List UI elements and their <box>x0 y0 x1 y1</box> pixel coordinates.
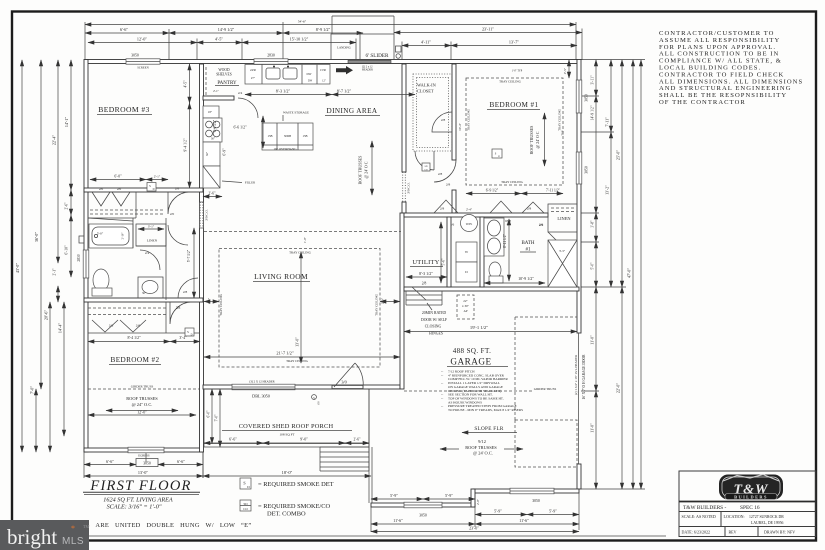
svg-text:1'-0" TYP: 1'-0" TYP <box>512 70 523 73</box>
svg-text:6'-6": 6'-6" <box>106 459 114 464</box>
bed1 bottom interior dims <box>466 193 521 195</box>
svg-text:LIVING ROOM: LIVING ROOM <box>254 272 308 281</box>
svg-text:= REQUIRED SMOKE/CO: = REQUIRED SMOKE/CO <box>258 503 331 510</box>
svg-text:ROOF TRUSSES: ROOF TRUSSES <box>126 396 158 401</box>
svg-text:DATE: 6/23/2022: DATE: 6/23/2022 <box>682 530 711 535</box>
living tray outer dash <box>204 231 401 233</box>
bedroom3 bottom wall <box>84 188 203 192</box>
svg-text:HEADER: HEADER <box>362 69 373 72</box>
svg-text:DRAWN BY: NFV: DRAWN BY: NFV <box>764 530 795 535</box>
cased opening 3/0 C.O. in spine <box>200 202 204 228</box>
svg-text:TRAY CEILING: TRAY CEILING <box>219 293 223 316</box>
svg-text:13'-7": 13'-7" <box>509 40 519 45</box>
svg-text:12727 SUNROCK DR: 12727 SUNROCK DR <box>749 515 784 519</box>
svg-text:TRAY CEILING: TRAY CEILING <box>467 108 471 131</box>
left dim col 22'-4" 2'-6" 2'-1" 20'-6" <box>57 60 59 263</box>
svg-text:5'-7 1/2": 5'-7 1/2" <box>187 249 191 262</box>
svg-text:MLS: MLS <box>62 536 84 547</box>
svg-text:6'-0": 6'-0" <box>114 175 122 179</box>
svg-text:5'-9": 5'-9" <box>549 509 557 514</box>
svg-text:2'-0": 2'-0" <box>381 297 385 304</box>
svg-text:13'-0": 13'-0" <box>138 470 148 475</box>
svg-text:9'-4 1/2": 9'-4 1/2" <box>184 138 188 152</box>
svg-text:3/0 C.O.: 3/0 C.O. <box>407 182 411 194</box>
bifold doors 2/0 2/0 <box>92 192 130 206</box>
svg-text:2/6: 2/6 <box>109 324 114 328</box>
svg-text:D: D <box>153 188 155 191</box>
hall door arc <box>434 160 456 182</box>
left dim 36'-0" / 7'-0" <box>40 60 42 389</box>
garage bottom dims <box>371 498 423 500</box>
landing <box>331 34 394 60</box>
svg-text:CLOSET: CLOSET <box>417 89 434 94</box>
svg-text:@ 24" O.C.: @ 24" O.C. <box>132 402 153 407</box>
closet wall below bifolds <box>88 217 136 219</box>
pedestal sink <box>138 277 163 298</box>
svg-text:13'-0": 13'-0" <box>295 337 300 347</box>
svg-text:FIRST FLOOR: FIRST FLOOR <box>89 478 191 494</box>
bath interior walls <box>132 218 134 248</box>
svg-text:4'-5": 4'-5" <box>215 37 223 42</box>
svg-text:TM: TM <box>83 524 89 529</box>
svg-text:CO: CO <box>424 169 428 172</box>
svg-text:2'-5": 2'-5" <box>563 67 567 74</box>
svg-text:8'-9 1/2": 8'-9 1/2" <box>316 27 331 32</box>
svg-text:DW: DW <box>307 72 312 76</box>
svg-text:CO: CO <box>243 507 248 511</box>
dimension tier top row left <box>85 32 169 34</box>
svg-text:DET. COMBO: DET. COMBO <box>267 511 306 518</box>
dimension tier second row left <box>88 42 197 44</box>
svg-text:2/0: 2/0 <box>170 212 175 216</box>
garage dashed layout lines <box>514 317 516 420</box>
svg-text:14'-9 1/2": 14'-9 1/2" <box>218 27 235 32</box>
svg-text:AP: AP <box>463 309 467 313</box>
porch steps <box>320 446 369 448</box>
pantry door 2/4 <box>238 98 258 118</box>
svg-text:CLOSING: CLOSING <box>425 325 442 329</box>
svg-text:2/8: 2/8 <box>176 306 181 310</box>
svg-text:DOOR W/ SELF: DOOR W/ SELF <box>421 318 447 322</box>
svg-text:6'-9 1/2": 6'-9 1/2" <box>486 189 499 193</box>
svg-text:2'-6": 2'-6" <box>65 202 69 209</box>
garage bottom wall right part <box>473 489 579 493</box>
attic access <box>457 295 474 319</box>
svg-text:8'-3 1/2": 8'-3 1/2" <box>419 271 433 276</box>
svg-text:TRAY CEILING: TRAY CEILING <box>501 180 524 184</box>
left dim col 14'-1" 6'-10" 14'-4" <box>70 60 72 190</box>
svg-text:23'-0": 23'-0" <box>469 526 479 531</box>
island <box>262 123 313 150</box>
window 3050 bedroom3 <box>126 59 160 64</box>
walk-in closet <box>413 74 452 151</box>
exterior top wall <box>85 60 577 64</box>
svg-text:GARAGE: GARAGE <box>450 357 491 367</box>
svg-text:2830: 2830 <box>77 254 81 261</box>
linen closet <box>548 204 577 232</box>
svg-text:W.H.: W.H. <box>466 222 473 226</box>
svg-text:3'-1": 3'-1" <box>148 225 155 229</box>
living bottom dim 21'-7 1/2" <box>204 356 400 358</box>
svg-text:8'-7 1/2": 8'-7 1/2" <box>337 89 352 94</box>
svg-text:DINING AREA: DINING AREA <box>327 107 378 115</box>
svg-text:SD: SD <box>243 502 248 506</box>
window 3050 bedroom2 <box>128 447 164 453</box>
shower <box>548 240 577 287</box>
front door 3/0 with arc <box>332 386 363 389</box>
svg-text:20MIN RATED: 20MIN RATED <box>422 311 447 315</box>
svg-text:BEDROOM #2: BEDROOM #2 <box>111 356 160 364</box>
svg-text:2'-4": 2'-4" <box>466 208 473 212</box>
svg-text:2'-6": 2'-6" <box>209 192 216 196</box>
svg-text:25'-0": 25'-0" <box>616 150 621 160</box>
bedroom1 tray ceiling dashed <box>466 78 563 185</box>
svg-text:2'-0": 2'-0" <box>207 297 211 304</box>
svg-text:6'-0": 6'-0" <box>207 410 211 417</box>
right extension lines <box>581 60 645 490</box>
svg-text:3050: 3050 <box>143 462 151 466</box>
windows 3050 bedroom1 right wall <box>576 80 582 113</box>
hall door 2/0 <box>168 225 188 245</box>
svg-text:12'-0": 12'-0" <box>137 410 147 415</box>
svg-text:OF THE CONTRACTOR: OF THE CONTRACTOR <box>659 99 746 106</box>
right dims upper <box>595 60 597 96</box>
svg-text:1624 SQ FT. LIVING AREA: 1624 SQ FT. LIVING AREA <box>103 497 173 504</box>
svg-text:LANDING: LANDING <box>337 46 351 50</box>
svg-text:36": 36" <box>142 292 146 295</box>
svg-text:19'-1 1/2": 19'-1 1/2" <box>470 325 488 330</box>
svg-text:2/0: 2/0 <box>117 187 122 191</box>
svg-text:5'-0": 5'-0" <box>591 262 595 269</box>
bedroom3 door 2/8 <box>168 192 190 214</box>
bed2 bottom exterior dims <box>84 464 136 466</box>
svg-text:11'-0": 11'-0" <box>590 423 595 433</box>
svg-text:SCALE: AS NOTED: SCALE: AS NOTED <box>682 514 716 519</box>
svg-text:LINEN: LINEN <box>557 216 571 221</box>
svg-text:SLOPE FLR: SLOPE FLR <box>474 426 504 432</box>
svg-text:2'-1": 2'-1" <box>154 175 161 179</box>
window 2830 kitchen <box>254 59 288 64</box>
svg-text:SCALE: 3/16" = 1'-0": SCALE: 3/16" = 1'-0" <box>107 504 162 511</box>
svg-text:21'-7 1/2": 21'-7 1/2" <box>276 351 294 356</box>
svg-text:11'-0": 11'-0" <box>590 335 595 345</box>
svg-text:BEDROOM #3: BEDROOM #3 <box>98 105 149 114</box>
svg-text:7'-0": 7'-0" <box>215 414 219 421</box>
dimension tier 54'-6" overall top <box>85 24 576 26</box>
svg-text:LOCATION:: LOCATION: <box>724 514 745 519</box>
svg-text:2'-10": 2'-10" <box>122 233 125 240</box>
bath/bed2 divider wall <box>84 298 203 302</box>
svg-text:@ 24' O C: @ 24' O C <box>364 161 369 178</box>
svg-text:S: S <box>243 481 245 486</box>
svg-text:TRAY CEILING: TRAY CEILING <box>289 251 312 255</box>
svg-text:BEDROOM #1: BEDROOM #1 <box>490 101 539 109</box>
svg-text:2'-1": 2'-1" <box>53 268 57 275</box>
svg-text:15'-10 1/2": 15'-10 1/2" <box>290 37 309 42</box>
toilet bath1 <box>489 262 501 278</box>
svg-text:3050: 3050 <box>532 499 540 503</box>
tub <box>89 224 133 248</box>
svg-text:1'-0": 1'-0" <box>303 236 307 243</box>
T&W logo <box>719 475 783 500</box>
slider door <box>348 60 391 63</box>
svg-text:9'-0": 9'-0" <box>300 437 308 442</box>
bed2 girder truss <box>88 388 199 390</box>
svg-text:7'-11": 7'-11" <box>605 117 610 127</box>
svg-text:8'-4 1/2": 8'-4 1/2" <box>127 336 141 340</box>
svg-text:2'-1": 2'-1" <box>213 89 220 93</box>
bath left wall <box>480 217 484 287</box>
svg-text:6'-6": 6'-6" <box>120 27 128 32</box>
svg-text:2430: 2430 <box>250 68 257 72</box>
svg-text:5'-9": 5'-9" <box>445 493 453 498</box>
toilet <box>93 269 109 291</box>
legend smoke/co <box>240 500 251 511</box>
svg-text:2/8: 2/8 <box>446 183 451 187</box>
svg-text:REV: REV <box>729 530 737 535</box>
exterior left wall <box>84 60 88 453</box>
svg-text:2/8: 2/8 <box>422 282 427 286</box>
svg-text:GIRDER TRUSS: GIRDER TRUSS <box>534 387 557 391</box>
svg-text:108 SQ FT: 108 SQ FT <box>279 433 295 437</box>
svg-text:43'-0": 43'-0" <box>15 263 20 273</box>
header arrow <box>336 66 353 74</box>
garage door opening <box>578 333 580 464</box>
kitchen upper counter row <box>245 65 330 85</box>
svg-text:12": 12" <box>322 80 326 83</box>
svg-text:D: D <box>191 334 193 337</box>
svg-text:14'-4": 14'-4" <box>58 323 63 333</box>
svg-text:D: D <box>498 155 500 158</box>
svg-text:2830: 2830 <box>267 54 275 58</box>
svg-text:--: -- <box>441 404 443 408</box>
porch right edge down to south wall <box>368 389 370 503</box>
closet door 2/8 <box>432 112 452 132</box>
svg-text:5'-9": 5'-9" <box>494 509 502 514</box>
svg-text:6'-6": 6'-6" <box>177 459 185 464</box>
utility / living right wall <box>400 213 404 389</box>
svg-text:30DB: 30DB <box>284 134 291 138</box>
linen door 2/6 chevron <box>548 232 559 254</box>
door 2/4 bath <box>140 250 160 270</box>
svg-text:54'-6": 54'-6" <box>298 20 307 24</box>
svg-text:16" OVERHANG: 16" OVERHANG <box>273 147 297 151</box>
svg-text:6'-9": 6'-9" <box>223 148 227 156</box>
svg-text:3'-11": 3'-11" <box>591 75 595 85</box>
svg-text:FILLER: FILLER <box>245 181 255 185</box>
svg-text:14'-1": 14'-1" <box>64 117 69 127</box>
bedroom1 bottom wall <box>404 213 548 217</box>
svg-text:TYP: TYP <box>562 130 565 135</box>
svg-text:4'-11": 4'-11" <box>421 40 431 45</box>
svg-text:DW: DW <box>308 80 313 83</box>
linen hall <box>136 224 166 246</box>
svg-text:(3) 2 X 12 HEADER: (3) 2 X 12 HEADER <box>249 380 274 384</box>
svg-text:SHELVES: SHELVES <box>216 73 231 77</box>
filler note <box>222 181 242 183</box>
svg-text:2/8: 2/8 <box>438 172 443 176</box>
svg-text:2/0: 2/0 <box>99 187 104 191</box>
svg-text:10'-4": 10'-4" <box>458 122 462 130</box>
svg-text:4'-5": 4'-5" <box>184 80 188 88</box>
window 2830 left wall <box>83 250 89 278</box>
bed3 dims above closet <box>90 179 146 181</box>
garage bottom wall left part <box>371 503 475 507</box>
svg-text:BUILDERS: BUILDERS <box>734 494 768 499</box>
svg-text:TRAY CEILING: TRAY CEILING <box>375 293 379 316</box>
svg-text:23'-11": 23'-11" <box>482 27 494 32</box>
svg-text:TRAY CEILING: TRAY CEILING <box>286 359 309 363</box>
svg-text:3050: 3050 <box>419 514 427 518</box>
svg-text:2'-0": 2'-0" <box>476 498 480 505</box>
svg-text:18'-0": 18'-0" <box>282 470 293 475</box>
pantry walls <box>203 96 234 100</box>
svg-text:10'-9 1/2": 10'-9 1/2" <box>518 276 534 281</box>
girder truss garage <box>404 390 532 392</box>
svg-text:6'-6 1/2": 6'-6 1/2" <box>213 119 217 132</box>
svg-text:22": 22" <box>463 299 468 303</box>
svg-text:3050: 3050 <box>585 94 589 102</box>
bottom 18'-0" <box>203 475 371 477</box>
svg-text:2/4: 2/4 <box>145 251 150 255</box>
svg-text:22'-4": 22'-4" <box>52 135 57 145</box>
svg-text:2/6: 2/6 <box>136 324 141 328</box>
dimension tier second row right <box>402 45 451 47</box>
title block frame <box>679 471 816 537</box>
svg-text:= REQUIRED SMOKE DET: = REQUIRED SMOKE DET <box>258 481 334 488</box>
svg-text:3/0 C.O.: 3/0 C.O. <box>205 209 209 221</box>
svg-text:14'-9 1/2": 14'-9 1/2" <box>591 105 595 120</box>
svg-text:--: -- <box>441 373 443 377</box>
hall wall right of dining <box>402 64 406 172</box>
svg-text:HINGES: HINGES <box>429 331 443 335</box>
svg-text:15B: 15B <box>302 134 307 138</box>
bright MLS watermark <box>0 520 89 550</box>
svg-text:13'-2": 13'-2" <box>605 185 610 195</box>
svg-text:47'-0": 47'-0" <box>627 268 632 278</box>
smoke det bed2 <box>185 328 194 336</box>
hall wall right of closet <box>452 64 456 160</box>
svg-text:S ARE UNITED DOUBLE HUNG: S ARE UNITED DOUBLE HUNG W/ LOW “E” <box>86 522 252 529</box>
svg-text:11'-6": 11'-6" <box>519 518 529 523</box>
svg-text:6'-6 1/2": 6'-6 1/2" <box>233 126 247 130</box>
bed1 door 2/8 chevron <box>434 200 458 213</box>
small post left <box>79 236 84 243</box>
svg-text:*: * <box>71 524 75 533</box>
living tray ceiling rect <box>219 249 380 368</box>
extension lines top <box>85 22 582 60</box>
svg-text:UTILITY: UTILITY <box>412 259 439 266</box>
svg-text:8'-11 1/2": 8'-11 1/2" <box>503 233 507 248</box>
vanity with two sinks <box>484 218 504 256</box>
tall cabinet column <box>203 106 219 118</box>
svg-text:T&W BUILDERS -: T&W BUILDERS - <box>683 505 727 511</box>
svg-text:22'-0": 22'-0" <box>616 383 621 393</box>
svg-text:2/8: 2/8 <box>441 118 446 122</box>
svg-text:ROOF TRUSSES: ROOF TRUSSES <box>529 126 534 155</box>
svg-text:6'-6": 6'-6" <box>229 437 237 442</box>
garage entry steps <box>406 294 442 296</box>
svg-text:3'-4": 3'-4" <box>179 336 187 340</box>
svg-text:ROOF TRUSSES: ROOF TRUSSES <box>358 156 363 185</box>
exterior right wall (house+garage) <box>577 60 581 334</box>
svg-text:7'-11 1/2": 7'-11 1/2" <box>546 189 561 193</box>
svg-text:2/8: 2/8 <box>183 290 188 294</box>
bedroom2 bottom exterior wall <box>84 448 203 452</box>
bedroom2 entry door 2/8 <box>170 302 192 324</box>
DBL 3050 window living <box>232 384 295 390</box>
living room bottom wall <box>203 385 400 389</box>
svg-text:488 SQ. FT.: 488 SQ. FT. <box>453 347 492 355</box>
svg-text:5'-9": 5'-9" <box>390 493 398 498</box>
right dims garage <box>595 287 597 391</box>
svg-text:16' X 7' O H GARAGE DOOR: 16' X 7' O H GARAGE DOOR <box>582 354 586 400</box>
svg-text:20'-6": 20'-6" <box>44 310 49 320</box>
svg-text:6'-10": 6'-10" <box>65 245 69 255</box>
svg-text:1530: 1530 <box>320 68 327 72</box>
svg-text:GIRDER TRUSS: GIRDER TRUSS <box>131 385 154 389</box>
kitchen dim row <box>245 94 332 96</box>
fridge <box>203 142 220 166</box>
washer dryer <box>456 242 477 262</box>
door 2/8 at bath right <box>178 278 198 298</box>
svg-text:2'-6": 2'-6" <box>354 438 361 442</box>
garage bottom step connector <box>471 489 475 507</box>
svg-text:WALK-IN: WALK-IN <box>417 83 437 88</box>
bed2 dims <box>88 341 170 343</box>
svg-text:5'-0": 5'-0" <box>97 232 104 236</box>
svg-text:@ 24' O.C.: @ 24' O.C. <box>473 451 493 456</box>
svg-text:6' SLIDER: 6' SLIDER <box>366 53 390 59</box>
svg-text:WASTE STORAGE: WASTE STORAGE <box>283 111 309 115</box>
svg-text:3/0: 3/0 <box>341 380 346 385</box>
svg-text:x 30": x 30" <box>462 304 470 308</box>
svg-text:SPEC 16: SPEC 16 <box>740 505 760 511</box>
left dim 43'-0" <box>21 60 23 452</box>
porch outline <box>204 389 369 447</box>
svg-text:EGRESS: EGRESS <box>138 454 150 458</box>
svg-text:LINEN: LINEN <box>147 239 158 243</box>
range <box>203 118 222 142</box>
svg-text:BATH: BATH <box>521 241 534 246</box>
svg-text:2/6: 2/6 <box>539 223 544 227</box>
svg-text:bright: bright <box>7 525 57 549</box>
garage top wall <box>404 287 579 291</box>
dimension tier 23'-11" right <box>394 32 582 34</box>
closet shelf dashes (hall closets) <box>90 209 164 211</box>
svg-text:15B: 15B <box>267 134 272 138</box>
svg-text:5'-6": 5'-6" <box>442 258 446 265</box>
svg-text:12'-0": 12'-0" <box>137 37 147 42</box>
svg-text:3'-8": 3'-8" <box>591 220 595 227</box>
svg-text:11'-6": 11'-6" <box>393 518 403 523</box>
svg-text:SCREEN: SCREEN <box>137 66 149 70</box>
svg-text:--: -- <box>441 381 443 385</box>
svg-text:9/12: 9/12 <box>478 439 486 444</box>
legend smoke det <box>240 478 251 489</box>
hall smoke boxes <box>492 149 502 158</box>
svg-text:3050: 3050 <box>131 54 139 58</box>
svg-text:3050: 3050 <box>585 166 589 174</box>
garage dim 19'-1 1/2" <box>404 331 577 333</box>
WH room <box>461 215 478 232</box>
svg-text:8'-3 1/2": 8'-3 1/2" <box>276 89 291 94</box>
svg-text:2/8: 2/8 <box>175 187 180 191</box>
svg-text:7'-0": 7'-0" <box>30 386 35 394</box>
svg-text:TRAY CEILING: TRAY CEILING <box>558 108 562 131</box>
svg-text:ROOF TRUSSES: ROOF TRUSSES <box>465 445 497 450</box>
kitchen sink <box>266 68 280 79</box>
